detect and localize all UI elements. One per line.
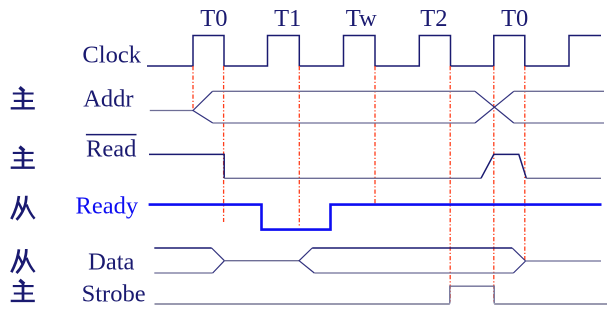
Addr bus: X crossover at new address [475, 91, 514, 123]
chinese label zhu (master) row Read [11, 147, 35, 168]
Addr bus: top rail segment 2 [514, 90, 604, 92]
dotted marker line at T2 fall (x=450) [449, 66, 451, 303]
svg-text:T0: T0 [200, 5, 227, 32]
dotted marker line at T0 fall (x=224) [223, 66, 225, 222]
Ready signal (blue, thick) [149, 205, 602, 230]
chinese label zhu (master) row Addr [11, 87, 35, 108]
Data bus: opening slopes [299, 248, 314, 273]
Strobe baseline right of pulse [494, 303, 607, 305]
Data bus: idle mid line [224, 260, 299, 262]
Addr bus: bottom rail segment 2 [514, 122, 604, 124]
Addr bus: top rail segment 1 [213, 90, 476, 92]
svg-text:T2: T2 [420, 5, 447, 32]
Strobe baseline left of pulse [155, 303, 450, 305]
svg-text:Ready: Ready [76, 193, 139, 220]
Data bus: tail mid line [526, 260, 601, 262]
Read signal: end-of-cycle trapezoid pulse [481, 154, 526, 178]
Strobe pulse [450, 286, 494, 303]
Read signal: low segment [224, 177, 481, 179]
Data bus: segment 2 closing slopes [512, 248, 525, 273]
dotted marker line at T1 fall (x=299) [298, 66, 300, 228]
Data bus: segment 1 bottom rail [154, 272, 212, 274]
svg-text:Read: Read [86, 135, 136, 162]
dotted marker line at last T0 fall (x=525) [524, 66, 526, 260]
Addr bus: opening slopes [193, 91, 213, 123]
svg-text:Strobe: Strobe [82, 280, 146, 307]
svg-text:Addr: Addr [83, 86, 133, 113]
chinese label cong (slave) row Ready [11, 196, 34, 220]
chinese label cong (slave) row Data [11, 249, 34, 273]
dotted marker line at Tw fall (x=375) [374, 66, 376, 205]
dotted marker line at last T0 rise (x=494) [493, 66, 495, 303]
svg-text:T0: T0 [501, 5, 528, 32]
svg-text:Tw: Tw [346, 5, 377, 32]
svg-text:Clock: Clock [82, 42, 141, 69]
Read signal: tail low segment [526, 177, 601, 179]
clock waveform [147, 36, 601, 67]
overline over Read label [86, 134, 137, 136]
Addr bus: bottom rail segment 1 [213, 122, 475, 124]
Addr bus: lead-in single line [150, 110, 193, 112]
Data bus: segment 1 top rail [154, 247, 211, 249]
Data bus: segment 2 top rail [312, 247, 512, 249]
Data bus: segment 2 bottom rail [314, 272, 513, 274]
Data bus: segment 1 closing slopes [212, 248, 225, 273]
dotted marker line at T0 rise (x=193) [192, 66, 194, 111]
Read signal: high segment [149, 154, 224, 178]
svg-text:Data: Data [88, 249, 134, 276]
chinese label zhu (master) row Strobe [11, 280, 35, 301]
svg-text:T1: T1 [274, 5, 301, 32]
